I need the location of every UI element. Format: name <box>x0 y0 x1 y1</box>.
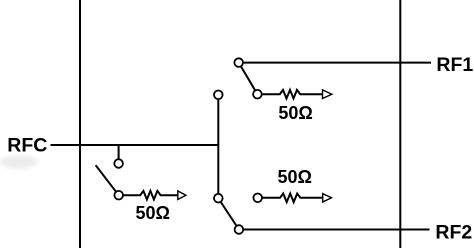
switch SW2 blade (pole to RF2) <box>218 198 239 229</box>
arrow to ground RF1 termination <box>323 90 332 99</box>
node RF1 termination contact <box>253 90 262 99</box>
resistor 50 ohm RF2 termination <box>262 194 323 203</box>
watermark smudge <box>0 156 38 169</box>
svg-text:50Ω: 50Ω <box>278 103 312 123</box>
svg-text:RF1: RF1 <box>436 54 473 76</box>
resistor 50 ohm RFC shunt <box>119 191 178 200</box>
node pole contact P1 <box>214 91 223 100</box>
switch SW3 blade (open, RFC shunt) <box>96 165 119 195</box>
node pole contact P2 <box>214 194 223 203</box>
node RF2 blade pivot <box>235 225 244 234</box>
IC body left border <box>79 0 81 248</box>
resistor 50 ohm RF1 termination <box>262 90 323 99</box>
node RF2 termination contact <box>253 194 262 203</box>
node RFC shunt pivot <box>114 191 123 200</box>
wire RFC to pole <box>51 144 219 146</box>
IC body right border <box>399 0 401 248</box>
svg-text:RFC: RFC <box>7 134 47 156</box>
wire RFC shunt stub <box>118 145 120 164</box>
wire RF1 output <box>239 62 431 64</box>
svg-text:50Ω: 50Ω <box>135 203 169 223</box>
switch SW1 blade (RF1 to termination) <box>239 63 258 95</box>
wire RF2 output <box>239 229 430 231</box>
node RF1 blade pivot <box>234 58 243 67</box>
svg-text:RF2: RF2 <box>435 222 472 244</box>
arrow to ground RFC shunt <box>178 191 186 200</box>
node RFC shunt contact <box>114 159 123 168</box>
svg-text:50Ω: 50Ω <box>277 167 311 187</box>
arrow to ground RF2 termination <box>323 194 332 202</box>
wire pole vertical <box>217 95 219 198</box>
